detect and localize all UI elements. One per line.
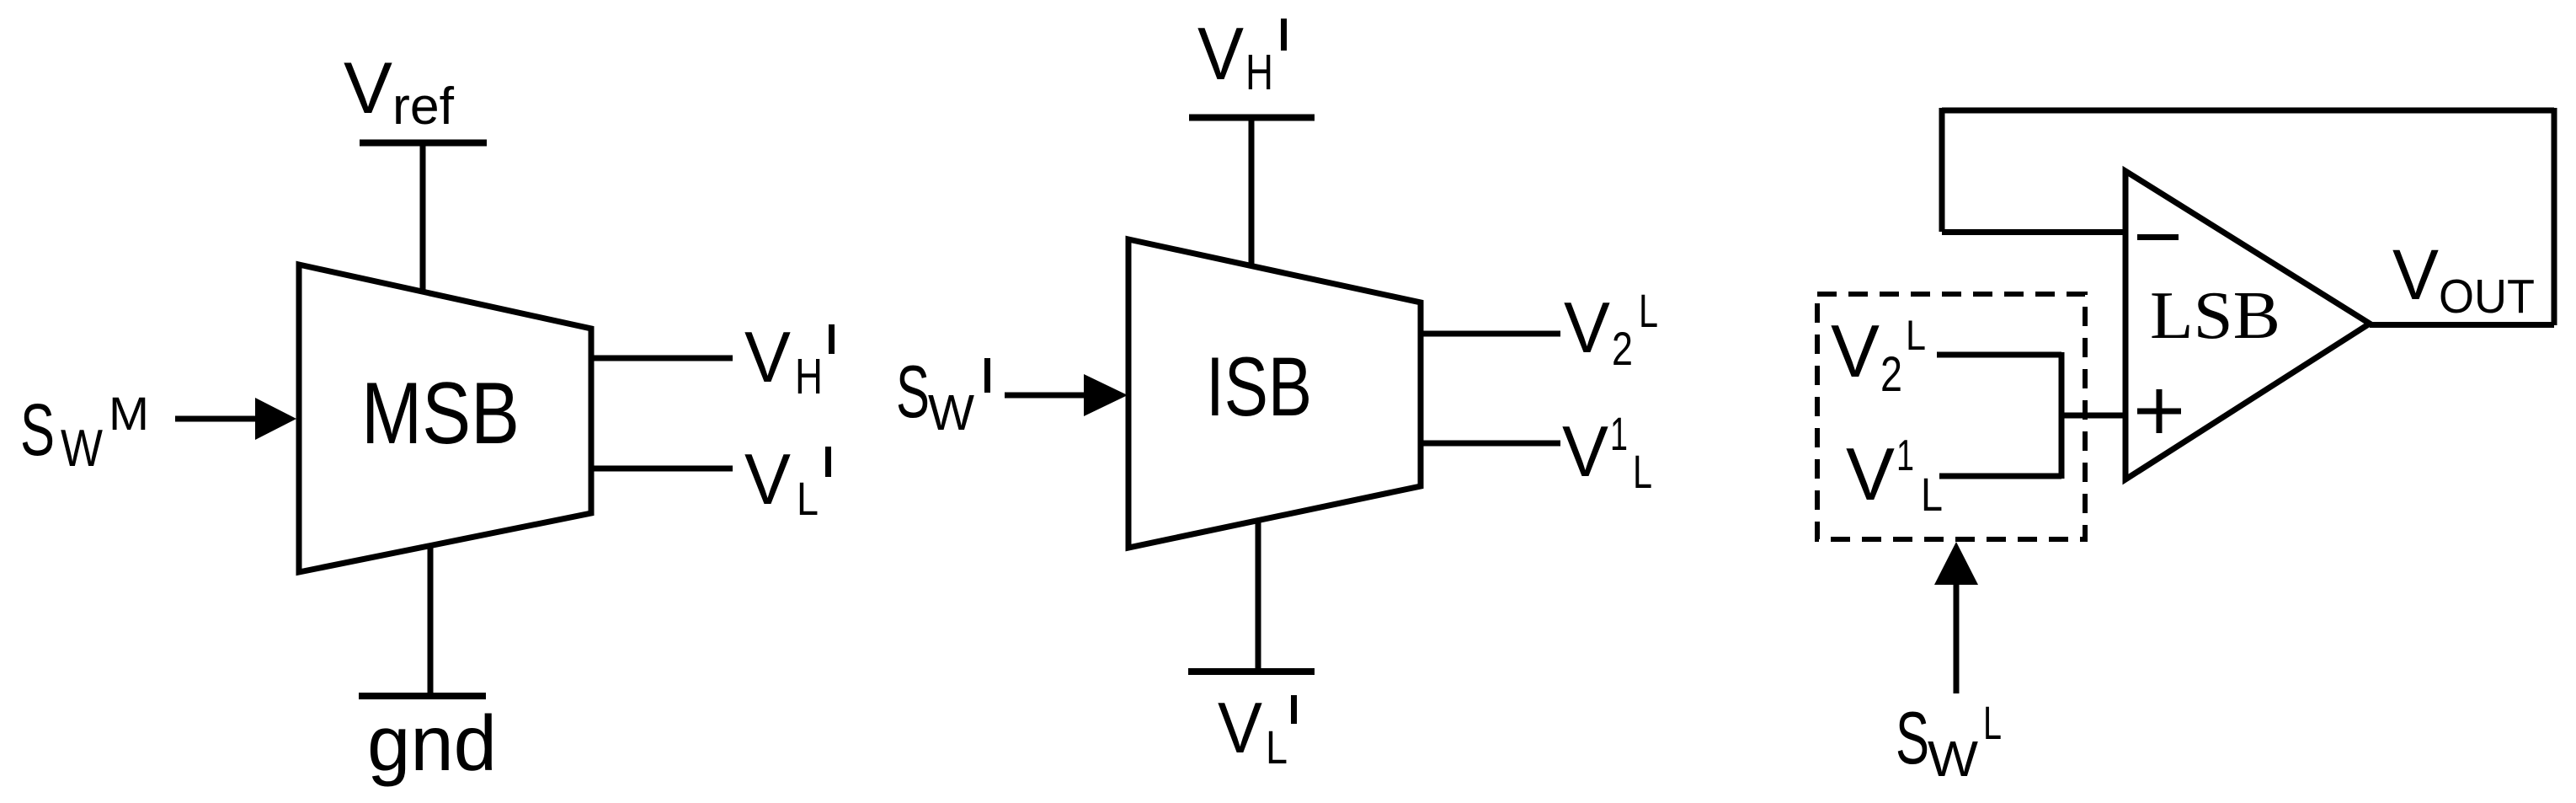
svg-text:V: V (2392, 235, 2439, 314)
svg-text:S: S (20, 389, 55, 471)
svg-text:L: L (797, 472, 819, 525)
svg-text:V: V (744, 440, 791, 520)
svg-text:ref: ref (392, 78, 455, 136)
svg-text:H: H (795, 349, 823, 404)
svg-text:W: W (1928, 731, 1978, 787)
svg-text:S: S (896, 350, 930, 433)
svg-text:V: V (344, 48, 392, 129)
svg-text:V: V (1197, 12, 1244, 95)
svg-text:V: V (1564, 288, 1610, 368)
svg-text:M: M (109, 387, 149, 440)
svg-text:V: V (1562, 412, 1608, 492)
svg-text:LSB: LSB (2150, 279, 2280, 353)
svg-text:1: 1 (1610, 407, 1628, 460)
svg-text:W: W (61, 420, 103, 478)
svg-text:L: L (1906, 312, 1926, 359)
svg-text:L: L (1266, 720, 1288, 774)
svg-text:OUT: OUT (2439, 270, 2535, 324)
svg-text:ISB: ISB (1206, 340, 1312, 433)
svg-text:V: V (1831, 309, 1880, 393)
svg-text:L: L (1639, 284, 1658, 337)
svg-text:L: L (1633, 445, 1652, 498)
svg-text:S: S (1896, 696, 1929, 779)
svg-text:W: W (928, 385, 974, 441)
svg-text:2: 2 (1880, 347, 1902, 402)
svg-text:2: 2 (1612, 322, 1633, 375)
svg-text:L: L (1921, 468, 1943, 521)
svg-text:1: 1 (1896, 431, 1914, 480)
svg-text:V: V (744, 318, 791, 398)
svg-text:L: L (1983, 696, 2002, 749)
svg-text:V: V (1846, 432, 1895, 516)
svg-text:H: H (1245, 45, 1273, 100)
svg-text:MSB: MSB (361, 365, 520, 463)
svg-text:gnd: gnd (367, 699, 497, 787)
svg-text:V: V (1218, 688, 1262, 768)
